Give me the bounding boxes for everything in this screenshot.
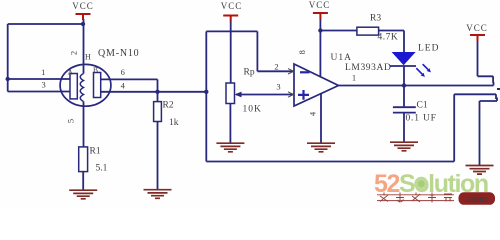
LED triangle: [392, 52, 416, 65]
wire: pin 1 horizontal: [8, 78, 70, 80]
watermark .com pill: [459, 192, 496, 205]
wire: LED cathode to output row: [403, 66, 405, 86]
power VCC3: [309, 0, 331, 19]
svg-text:10K: 10K: [243, 105, 262, 115]
wire: pin 6 horizontal: [101, 78, 158, 80]
svg-text:A: A: [68, 68, 74, 77]
svg-text:R3: R3: [370, 14, 381, 24]
svg-text:U1A: U1A: [331, 53, 352, 63]
svg-text:1k: 1k: [169, 118, 179, 128]
ground (R1): [69, 190, 97, 199]
wire: vertical joining 6 and 4 to R2: [157, 79, 159, 101]
svg-text:1: 1: [41, 67, 45, 77]
svg-text:3: 3: [41, 80, 45, 90]
sensor electrode A: [70, 74, 77, 99]
power VCC2: [221, 1, 243, 22]
power VCC1: [72, 1, 94, 20]
wire: left vertical bus pins 1,3: [7, 24, 9, 92]
wire: R3 to LED top: [379, 31, 404, 53]
wire: VCC4 drop: [478, 38, 494, 83]
wire: pin 4 horizontal to box: [101, 91, 207, 93]
wire: right ground stub: [480, 98, 498, 166]
svg-text:VCC: VCC: [309, 0, 331, 10]
junction dots: [6, 22, 407, 94]
wire: VCC1 drop to sensor top pin 2: [83, 19, 85, 74]
svg-text:0.1 UF: 0.1 UF: [406, 114, 437, 124]
svg-text:5.1: 5.1: [96, 164, 108, 174]
svg-text:QM-N10: QM-N10: [98, 48, 139, 59]
wire: sensor bottom pin 5 to R1: [83, 102, 85, 147]
ground (pot Rp): [216, 143, 244, 152]
node: R2 / pin4 junction: [155, 90, 159, 94]
wire: signal box left vertical: [205, 31, 207, 161]
wire: pin 3 horizontal: [8, 91, 70, 93]
sensor electrode B: [94, 73, 101, 98]
wire: VCC3 drop to op-amp pin 8: [319, 18, 321, 77]
LED cathode bar: [390, 65, 416, 67]
svg-text:R2: R2: [163, 101, 174, 111]
wire: signal box right vertical: [453, 94, 455, 161]
wire: signal box bottom bus: [206, 161, 454, 163]
ground (op-amp pin 4): [307, 143, 335, 152]
wire: VCC2 drop to pot: [230, 21, 232, 83]
wire: R2 bottom to ground: [157, 122, 159, 190]
wire: pot bottom to ground: [229, 104, 231, 144]
plus symbol: [298, 90, 309, 100]
node: VCC1 junction: [81, 22, 85, 26]
wire: R1 to ground: [82, 172, 84, 190]
LED arrow 2: [423, 64, 428, 69]
watermark 52Solution logo: [374, 170, 488, 198]
svg-text:VCC: VCC: [72, 1, 94, 11]
svg-text:1: 1: [352, 73, 356, 83]
pin 2 arrow: [288, 69, 294, 74]
svg-text:Rp: Rp: [244, 68, 255, 78]
svg-text:2: 2: [274, 62, 278, 72]
svg-text:B: B: [93, 66, 98, 75]
svg-text:R1: R1: [90, 147, 101, 157]
wire: signal box top horizontal: [206, 30, 257, 32]
svg-text:.com: .com: [466, 193, 488, 205]
sensor body ellipse: [60, 64, 111, 106]
svg-text:C1: C1: [417, 101, 428, 111]
ground (R2): [144, 190, 172, 199]
node: connector pin mark: [497, 88, 500, 90]
node: box left junction: [204, 90, 208, 94]
svg-text:8: 8: [297, 50, 307, 54]
wire: output row to C1: [403, 86, 405, 107]
svg-text:H: H: [85, 53, 91, 62]
node: VCC3 / R3 junction: [318, 28, 322, 32]
watermark chinese row 我爱方案网: [377, 193, 454, 203]
wire: C1 to ground: [403, 113, 405, 142]
power VCC4 (right): [466, 23, 488, 41]
svg-text:6: 6: [121, 67, 125, 77]
ground (right connector): [466, 166, 494, 175]
wire: branch to R3: [320, 30, 357, 32]
svg-text:LM393AD: LM393AD: [345, 63, 391, 73]
wire: top-left bus horizontal: [8, 23, 83, 25]
wire: drop to op-amp pin 2: [256, 31, 258, 71]
svg-text:3: 3: [276, 82, 280, 92]
wire: op-amp pin 4 to ground: [320, 94, 322, 143]
pin 3 arrow: [288, 92, 294, 97]
svg-text:4.7K: 4.7K: [378, 33, 399, 43]
sensor heater coil: [80, 74, 83, 102]
wire: op-amp pin 2 horizontal: [257, 70, 294, 72]
wire: op-amp output row: [339, 82, 494, 86]
svg-text:4: 4: [121, 81, 126, 91]
wire: pot wiper to op-amp pin 3: [236, 94, 294, 96]
LED arrow 1: [416, 68, 422, 74]
svg-text:VCC: VCC: [221, 1, 243, 11]
svg-text:5: 5: [66, 119, 76, 123]
pot wiper arrow: [235, 92, 242, 98]
svg-text:4: 4: [307, 111, 317, 116]
minus symbol: [300, 71, 310, 73]
node: LED / C1 / output junction: [402, 83, 406, 87]
svg-text:2: 2: [69, 51, 79, 55]
svg-text:LED: LED: [418, 44, 439, 54]
wire: signal out to connector: [454, 94, 496, 99]
ground (C1): [390, 142, 418, 151]
node: pin1 bus junction: [6, 77, 10, 81]
green dot o of Solution: [414, 177, 428, 191]
svg-text:VCC: VCC: [466, 23, 488, 33]
